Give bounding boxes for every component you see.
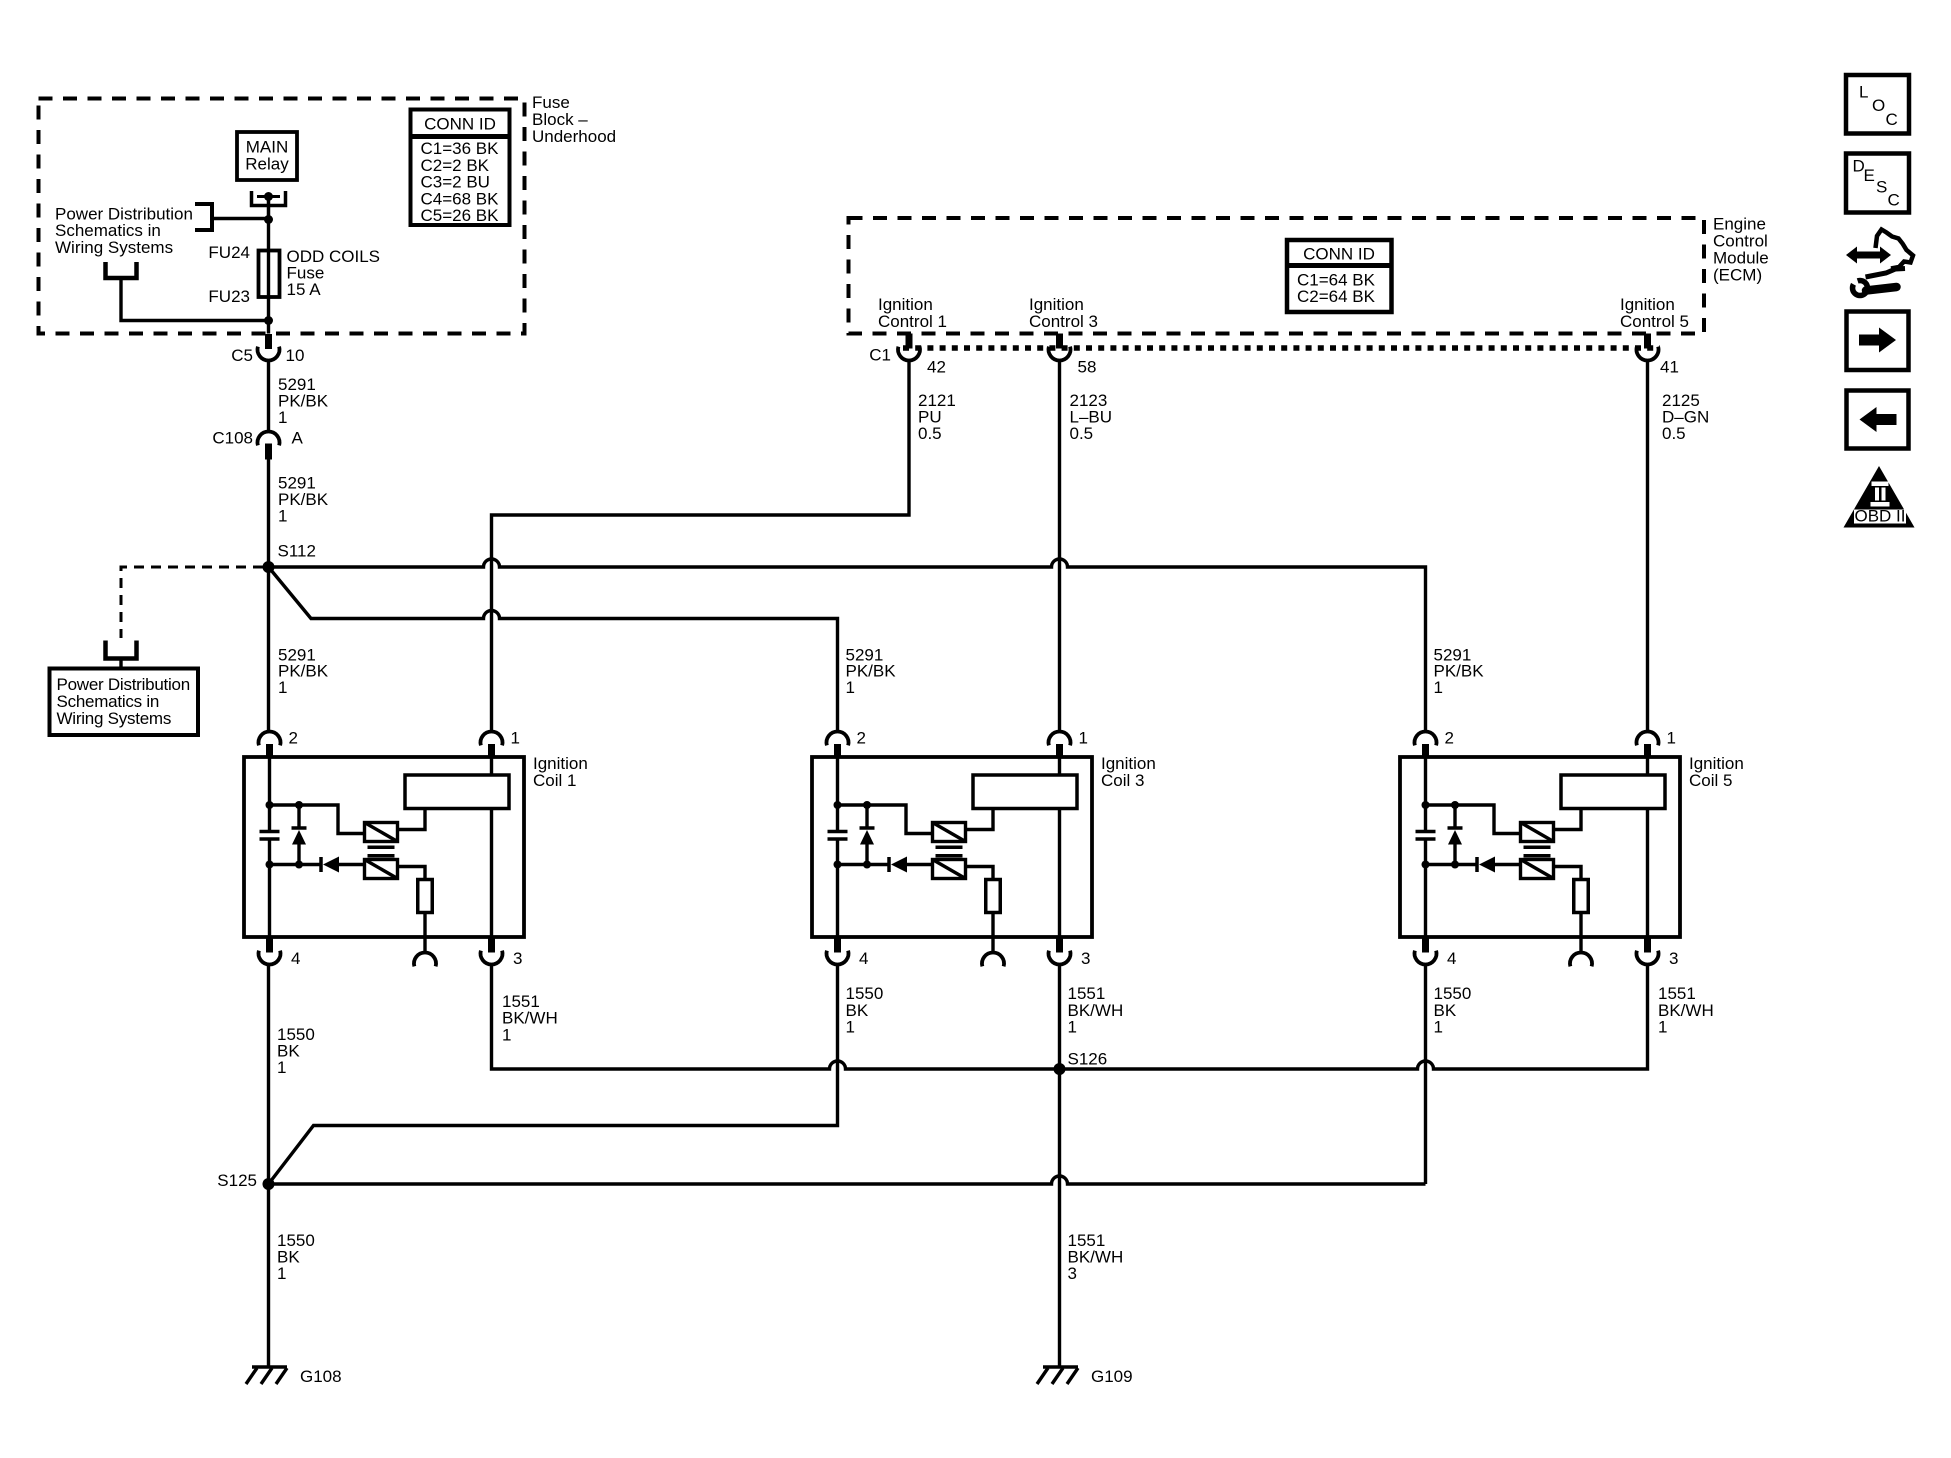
transformer core bars (Coil 1) bbox=[368, 846, 395, 850]
svg-text:Wiring Systems: Wiring Systems bbox=[55, 238, 173, 257]
icon vehicle communication (car outline) bbox=[1876, 230, 1914, 269]
node junction above C5 bbox=[264, 316, 273, 325]
svg-text:O: O bbox=[1872, 96, 1885, 115]
svg-text:FU24: FU24 bbox=[208, 243, 250, 262]
wire C108 to S112 (5291 PK/BK) bbox=[267, 460, 270, 568]
secondary winding lower (Coil 1) bbox=[365, 860, 398, 879]
wire bottom node line (Coil 1) bbox=[270, 863, 322, 866]
node dots top (Coil 1) bbox=[266, 801, 274, 809]
wire pin1 through-line (Coil 1) bbox=[490, 757, 493, 937]
svg-text:1: 1 bbox=[1667, 729, 1676, 748]
wire S125 to G108 (1550 BK 1) bbox=[267, 1184, 270, 1367]
coil pin 2 stub bbox=[266, 744, 273, 758]
svg-text:10: 10 bbox=[286, 346, 305, 365]
wire bottom node line (Coil 5) bbox=[1426, 863, 1478, 866]
svg-text:Control 3: Control 3 bbox=[1029, 312, 1098, 331]
coil pin 2 arc bbox=[1415, 732, 1437, 746]
primary winding upper (Coil 5) bbox=[1521, 823, 1554, 842]
spark plug tower stub (Coil 3) bbox=[991, 937, 994, 952]
zener diode in coil Coil 5 bbox=[1453, 805, 1456, 830]
coil pin 4 stub bbox=[266, 937, 273, 953]
secondary winding lower (Coil 3) bbox=[933, 860, 966, 879]
icon vehicle communication (double arrow) bbox=[1846, 247, 1891, 264]
wire pin1 through-line (Coil 3) bbox=[1058, 757, 1061, 937]
svg-text:3: 3 bbox=[1068, 1264, 1077, 1283]
svg-text:Coil 1: Coil 1 bbox=[533, 771, 576, 790]
spark plug tower stub (Coil 5) bbox=[1579, 937, 1582, 952]
capacitor in coil Coil 3 bbox=[828, 830, 848, 834]
svg-text:Relay: Relay bbox=[245, 155, 289, 174]
diode in coil Coil 5 bbox=[1475, 857, 1479, 872]
svg-text:S: S bbox=[1876, 178, 1887, 197]
transformer core bars (Coil 5) bbox=[1524, 846, 1551, 850]
svg-text:OBD II: OBD II bbox=[1854, 507, 1905, 526]
wire coil internal left vertical lower bbox=[836, 839, 839, 937]
svg-text:1: 1 bbox=[278, 678, 287, 697]
svg-text:0.5: 0.5 bbox=[918, 424, 942, 443]
wire pin1 through-line (Coil 5) bbox=[1646, 757, 1649, 937]
wire 1551 bus S126 (with hops) bbox=[492, 965, 1648, 1070]
spark plug tower stub (Coil 1) bbox=[423, 937, 426, 952]
coil pin 1 stub bbox=[1056, 744, 1063, 758]
wire top node line (Coil 3) bbox=[838, 805, 933, 834]
svg-text:1: 1 bbox=[1434, 678, 1443, 697]
coil pin 3 stub bbox=[1056, 937, 1063, 953]
wire lower winding to resistor (Coil 5) bbox=[1554, 867, 1582, 880]
conn-id table (ECM) bbox=[1287, 240, 1392, 312]
wire lower winding to resistor (Coil 1) bbox=[398, 867, 426, 880]
svg-text:FU23: FU23 bbox=[208, 287, 250, 306]
svg-text:1: 1 bbox=[1658, 1017, 1667, 1036]
svg-text:1: 1 bbox=[277, 1058, 286, 1077]
wire cup to box bbox=[119, 659, 122, 669]
svg-text:(ECM): (ECM) bbox=[1713, 266, 1762, 285]
coil module block bbox=[1561, 775, 1665, 809]
svg-text:2: 2 bbox=[857, 729, 866, 748]
wire coil internal left vertical upper bbox=[836, 757, 839, 831]
svg-text:G109: G109 bbox=[1091, 1367, 1133, 1386]
primary winding upper (Coil 1) bbox=[365, 823, 398, 842]
svg-text:S112: S112 bbox=[278, 541, 316, 560]
coil pin 3 arc bbox=[1636, 951, 1658, 965]
wire upper winding to module (Coil 3) bbox=[966, 809, 994, 830]
connector C108 pin A stub bbox=[265, 444, 272, 460]
svg-text:S126: S126 bbox=[1068, 1050, 1108, 1069]
connector C108 arc bbox=[258, 432, 280, 446]
conn-id table (fuse block) bbox=[411, 110, 510, 226]
svg-text:4: 4 bbox=[859, 949, 868, 968]
coil pin 1 arc bbox=[1636, 732, 1658, 746]
off-page connector cup (fuse block left branch) bbox=[106, 262, 137, 278]
diode in coil Coil 3 bbox=[887, 857, 891, 872]
svg-text:4: 4 bbox=[291, 949, 300, 968]
svg-text:1: 1 bbox=[846, 1017, 855, 1036]
connector C5 arc bbox=[258, 347, 280, 361]
svg-text:C108: C108 bbox=[212, 429, 253, 448]
coil pin 1 arc bbox=[1049, 732, 1071, 746]
coil module block bbox=[973, 775, 1077, 809]
transformer core bars (Coil 3) bbox=[936, 846, 963, 850]
svg-text:1: 1 bbox=[502, 1026, 511, 1045]
icon vehicle communication (wrench) bbox=[1853, 281, 1868, 296]
svg-text:1: 1 bbox=[511, 729, 520, 748]
wire S112 diagonal branch to coil3 pin2 (with hop) bbox=[269, 567, 838, 731]
svg-text:1: 1 bbox=[846, 678, 855, 697]
wire dashed to off-page (S112 left) bbox=[121, 567, 263, 638]
svg-text:3: 3 bbox=[513, 949, 522, 968]
fuse FU24/FU23 ODD COILS 15A bbox=[259, 251, 280, 298]
svg-text:1: 1 bbox=[278, 507, 287, 526]
wire coil internal left vertical lower bbox=[268, 839, 271, 937]
wire bottom node line (Coil 3) bbox=[838, 863, 890, 866]
resistor in coil Coil 3 bbox=[986, 880, 1001, 913]
ignition coil box Coil 3 bbox=[812, 757, 1092, 937]
coil pin 2 stub bbox=[1422, 744, 1429, 758]
svg-text:1: 1 bbox=[278, 408, 287, 427]
off-page connector cup (lower left of fuse block) bbox=[106, 641, 137, 659]
wire S112 bus to coil5 pin2 (with hops) bbox=[269, 559, 1426, 731]
svg-text:A: A bbox=[292, 429, 304, 448]
svg-text:G108: G108 bbox=[300, 1367, 342, 1386]
coil pin 1 arc bbox=[480, 732, 502, 746]
wire ECM 42 to coil1 pin1 (2121 PU) bbox=[492, 361, 910, 732]
node dots bottom (Coil 1) bbox=[266, 861, 274, 869]
svg-text:C5: C5 bbox=[231, 346, 253, 365]
svg-text:CONN ID: CONN ID bbox=[1303, 245, 1375, 264]
svg-text:2: 2 bbox=[289, 729, 298, 748]
resistor in coil Coil 5 bbox=[1574, 880, 1589, 913]
node dots top (Coil 5) bbox=[1422, 801, 1430, 809]
coil pin 3 arc bbox=[480, 951, 502, 965]
svg-text:C1: C1 bbox=[869, 346, 891, 365]
icon back arrow box bbox=[1847, 391, 1909, 449]
svg-text:Control 5: Control 5 bbox=[1620, 312, 1689, 331]
svg-text:S125: S125 bbox=[217, 1171, 257, 1190]
ground G109 bbox=[1043, 1365, 1078, 1369]
coil pin 1 stub bbox=[1644, 744, 1651, 758]
ignition coil box Coil 5 bbox=[1400, 757, 1680, 937]
icon forward arrow box bbox=[1847, 312, 1909, 371]
secondary winding lower (Coil 5) bbox=[1521, 860, 1554, 879]
wire C5 to C108 (5291 PK/BK) bbox=[267, 361, 270, 432]
ECM pin 58 arc bbox=[1049, 347, 1071, 361]
wire resistor to box bottom (Coil 5) bbox=[1579, 913, 1582, 938]
ECM pin 58 stub bbox=[1056, 334, 1063, 349]
ECM pin 42 arc bbox=[898, 347, 920, 361]
icon DESC box bbox=[1846, 154, 1909, 213]
wire coil3 pin4 to S125 branch (jog) bbox=[269, 965, 838, 1185]
wire S112 down to coil1 pin2 bbox=[267, 567, 270, 731]
svg-text:41: 41 bbox=[1660, 358, 1679, 377]
diode in coil Coil 1 bbox=[319, 857, 323, 872]
wire coil5 pin4 down to S125 bus bbox=[1424, 965, 1427, 1185]
svg-text:Coil 5: Coil 5 bbox=[1689, 771, 1732, 790]
svg-text:C5=26 BK: C5=26 BK bbox=[421, 206, 500, 225]
wire upper winding to module (Coil 5) bbox=[1554, 809, 1582, 830]
node S125 bbox=[263, 1178, 275, 1190]
relay pin receptacle cup bbox=[252, 191, 286, 206]
svg-text:0.5: 0.5 bbox=[1662, 424, 1686, 443]
zener diode in coil Coil 3 bbox=[865, 805, 868, 830]
svg-text:C2=64 BK: C2=64 BK bbox=[1297, 287, 1376, 306]
wire relay to fuse to fuse block edge bbox=[267, 220, 270, 334]
node S126 bbox=[1054, 1063, 1066, 1075]
wire coil internal left vertical upper bbox=[268, 757, 271, 831]
wire coil internal left vertical lower bbox=[1424, 839, 1427, 937]
wire upper winding to module (Coil 1) bbox=[398, 809, 426, 830]
primary winding upper (Coil 3) bbox=[933, 823, 966, 842]
power distribution schematics box (lower left) bbox=[50, 669, 199, 736]
spark plug tower arc (Coil 3) bbox=[982, 953, 1004, 967]
coil pin 4 stub bbox=[1422, 937, 1429, 953]
svg-text:E: E bbox=[1864, 166, 1875, 185]
wire ECM 58 to coil3 pin1 (2123 L-BU) bbox=[1058, 361, 1061, 732]
coil pin 4 arc bbox=[1415, 951, 1437, 965]
wire S126 to G109 (1551 BK/WH 3) bbox=[1058, 1069, 1061, 1367]
wire top node line (Coil 1) bbox=[270, 805, 365, 834]
svg-text:42: 42 bbox=[927, 358, 946, 377]
wire coil1 pin4 to S125 bbox=[267, 965, 270, 1185]
svg-text:3: 3 bbox=[1669, 949, 1678, 968]
coil pin 4 arc bbox=[259, 951, 281, 965]
spark plug tower arc (Coil 5) bbox=[1570, 953, 1592, 967]
wire relay stem bbox=[267, 197, 271, 220]
coil pin 4 arc bbox=[827, 951, 849, 965]
fuse block dashed box (Fuse Block - Underhood) bbox=[39, 99, 525, 334]
ECM pin 42 stub bbox=[906, 334, 913, 349]
svg-text:L: L bbox=[1859, 82, 1868, 101]
svg-text:C: C bbox=[1886, 110, 1898, 129]
ECM pin 41 arc bbox=[1637, 347, 1659, 361]
relay MAIN Relay box bbox=[237, 132, 297, 180]
node dots bottom (Coil 3) bbox=[834, 861, 842, 869]
ignition coil box Coil 1 bbox=[244, 757, 524, 937]
svg-text:3: 3 bbox=[1081, 949, 1090, 968]
icon LOC box bbox=[1846, 75, 1909, 134]
svg-text:1: 1 bbox=[1434, 1017, 1443, 1036]
wire coil internal left vertical upper bbox=[1424, 757, 1427, 831]
svg-text:Underhood: Underhood bbox=[532, 127, 616, 146]
coil pin 2 stub bbox=[834, 744, 841, 758]
coil pin 3 stub bbox=[488, 937, 495, 953]
coil pin 4 stub bbox=[834, 937, 841, 953]
coil module block bbox=[405, 775, 509, 809]
ECM dashed box (Engine Control Module) bbox=[849, 218, 1705, 334]
spark plug tower arc (Coil 1) bbox=[414, 953, 436, 967]
coil pin 3 stub bbox=[1644, 937, 1651, 953]
coil pin 2 arc bbox=[259, 732, 281, 746]
svg-text:1: 1 bbox=[1068, 1017, 1077, 1036]
svg-text:Coil 3: Coil 3 bbox=[1101, 771, 1144, 790]
zener diode in coil Coil 1 bbox=[297, 805, 300, 830]
svg-text:Control 1: Control 1 bbox=[878, 312, 947, 331]
svg-text:C: C bbox=[1888, 190, 1900, 209]
svg-text:58: 58 bbox=[1078, 358, 1097, 377]
capacitor in coil Coil 1 bbox=[260, 830, 280, 834]
node dots top (Coil 3) bbox=[834, 801, 842, 809]
wire resistor to box bottom (Coil 1) bbox=[423, 913, 426, 938]
svg-text:0.5: 0.5 bbox=[1070, 424, 1094, 443]
capacitor in coil Coil 5 bbox=[1416, 830, 1436, 834]
node dots bottom (Coil 5) bbox=[1422, 861, 1430, 869]
off-page bracket to Power Distribution bbox=[195, 204, 212, 230]
svg-text:2: 2 bbox=[1445, 729, 1454, 748]
ECM pin 41 stub bbox=[1644, 334, 1651, 349]
svg-text:4: 4 bbox=[1447, 949, 1456, 968]
svg-text:CONN ID: CONN ID bbox=[424, 115, 496, 134]
wire coil3 pin3 to S126 bbox=[1058, 965, 1061, 1070]
connector C5 pin 10 stub bbox=[265, 334, 272, 349]
svg-text:1: 1 bbox=[277, 1264, 286, 1283]
coil pin 3 arc bbox=[1049, 951, 1071, 965]
node S112 bbox=[263, 561, 275, 573]
wire top node line (Coil 5) bbox=[1426, 805, 1521, 834]
wire lower winding to resistor (Coil 3) bbox=[966, 867, 994, 880]
icon OBD II triangle bbox=[1844, 466, 1915, 528]
wire ECM 41 to coil5 pin1 (2125 D-GN) bbox=[1646, 361, 1649, 732]
ground G108 bbox=[252, 1365, 287, 1369]
svg-text:1: 1 bbox=[1079, 729, 1088, 748]
wire fuse-block left branch bbox=[121, 278, 269, 321]
wire resistor to box bottom (Coil 3) bbox=[991, 913, 994, 938]
relay contact bar with junction dot bbox=[257, 192, 280, 201]
node junction below relay bbox=[264, 215, 273, 224]
svg-text:Wiring Systems: Wiring Systems bbox=[57, 709, 172, 728]
ECM connector C1 dotted line bbox=[903, 345, 1660, 351]
resistor in coil Coil 1 bbox=[418, 880, 433, 913]
wire bracket to relay stem bbox=[212, 217, 269, 220]
svg-text:15 A: 15 A bbox=[287, 280, 322, 299]
wire S125 bus (with hop) bbox=[269, 1176, 1426, 1184]
coil pin 1 stub bbox=[488, 744, 495, 758]
coil pin 2 arc bbox=[827, 732, 849, 746]
